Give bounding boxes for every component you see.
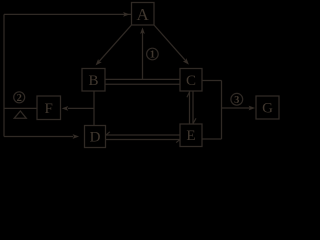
arrow tick into E top [193, 118, 196, 123]
wire right vertical [221, 81, 223, 140]
svg-text:C: C [186, 73, 196, 89]
wire A to B diagonal [99, 25, 131, 61]
box D [85, 126, 106, 148]
wire left vertical [3, 14, 5, 136]
box B [82, 69, 105, 92]
wire D-E upper horizontal [106, 134, 181, 136]
arrowhead into A bottom [140, 27, 145, 34]
arrow tick into D right [106, 132, 110, 135]
wire B bottom to D top [93, 91, 95, 126]
arrowhead into G left [249, 106, 256, 111]
wire B-D vertical branch to F [68, 107, 94, 109]
wire mid vertical up to A [142, 30, 144, 80]
arrow tick into C bottom [187, 92, 190, 97]
label circled 3 [231, 93, 243, 106]
svg-text:3: 3 [234, 95, 239, 106]
svg-text:B: B [88, 73, 98, 89]
wire D-E lower horizontal [106, 139, 181, 141]
box A [132, 3, 155, 26]
arrow tick into E left [176, 140, 180, 143]
arrowhead into C top [183, 58, 191, 66]
wire left-bottom horizontal to D [4, 136, 73, 138]
svg-text:1: 1 [150, 50, 155, 61]
wire C-E right vertical [192, 91, 194, 124]
box F [37, 96, 61, 120]
wire B to C upper horizontal [105, 78, 180, 80]
label triangle [14, 111, 26, 118]
wire C right horizontal [202, 80, 222, 82]
svg-text:F: F [45, 101, 53, 117]
svg-text:2: 2 [17, 93, 22, 104]
wire B to C lower horizontal [105, 83, 180, 85]
wire A to C diagonal [154, 25, 186, 61]
wire C-E left vertical [189, 91, 191, 124]
wire E right horizontal [202, 138, 222, 140]
svg-text:G: G [262, 101, 273, 117]
label circled 2 [14, 92, 25, 104]
wire branch to G [222, 107, 253, 109]
wire left-top horizontal to A [4, 13, 132, 15]
arrowhead into A left [123, 12, 130, 17]
box G [256, 96, 279, 119]
arrowhead into D left [73, 134, 80, 139]
arrowhead into B top [94, 59, 102, 67]
svg-text:A: A [137, 5, 150, 24]
wire F left to left vertical [4, 107, 37, 109]
svg-text:E: E [186, 128, 195, 144]
arrowhead into F right [62, 106, 68, 111]
label circled 1 [147, 48, 159, 61]
box E [180, 124, 202, 147]
box C [180, 69, 202, 92]
svg-text:D: D [90, 130, 101, 146]
